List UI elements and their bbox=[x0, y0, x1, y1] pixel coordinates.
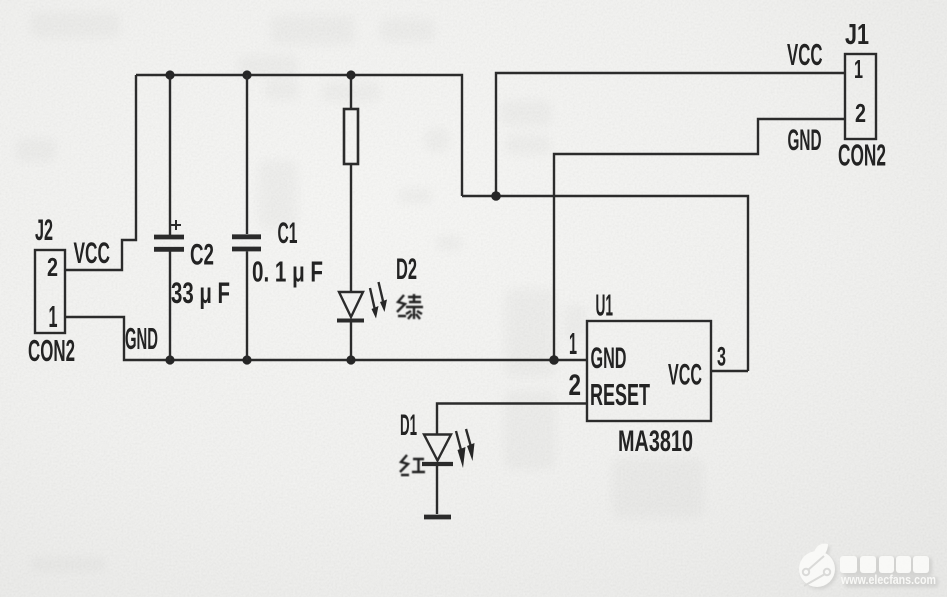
node GND bus at C2 bbox=[165, 355, 174, 364]
svg-text:CON2: CON2 bbox=[838, 138, 886, 173]
IC U1 body bbox=[587, 321, 711, 421]
svg-text:C2: C2 bbox=[190, 239, 214, 272]
wire VCC feed to J1 bbox=[496, 73, 845, 196]
elecfans watermark bbox=[799, 544, 938, 590]
wire U1 pin2 RESET run bbox=[437, 404, 587, 435]
svg-text:D1: D1 bbox=[400, 409, 417, 442]
node GND bus at U1 pin1 bbox=[549, 355, 559, 365]
wire top VCC bus bbox=[136, 75, 462, 196]
svg-text:VCC: VCC bbox=[787, 37, 823, 72]
capacitor C2 bbox=[154, 75, 184, 360]
LED D2 bbox=[337, 282, 387, 360]
node mid rail bbox=[491, 191, 501, 201]
svg-text:GND: GND bbox=[788, 124, 822, 157]
connector J1 body bbox=[845, 54, 876, 139]
svg-text:2: 2 bbox=[569, 369, 582, 402]
node GND bus at D2 bbox=[346, 355, 355, 364]
wire mid rail to U1 pin3 bbox=[462, 196, 748, 371]
node top bus at C1 bbox=[242, 70, 251, 79]
node GND bus at C1 bbox=[242, 355, 251, 364]
svg-text:MA3810: MA3810 bbox=[618, 425, 693, 458]
ground symbol bbox=[424, 515, 451, 520]
svg-text:J2: J2 bbox=[35, 214, 53, 247]
svg-text:3: 3 bbox=[717, 342, 726, 372]
svg-text:RESET: RESET bbox=[590, 377, 650, 412]
svg-text:VCC: VCC bbox=[668, 359, 702, 392]
capacitor C1 bbox=[232, 75, 261, 360]
svg-text:D2: D2 bbox=[396, 253, 417, 286]
svg-text:GND: GND bbox=[125, 321, 158, 356]
svg-text:2: 2 bbox=[47, 252, 58, 282]
svg-text:C1: C1 bbox=[278, 217, 298, 250]
svg-text:0. 1 μ F: 0. 1 μ F bbox=[252, 257, 323, 289]
svg-text:GND: GND bbox=[591, 342, 627, 375]
resistor R (unlabeled) bbox=[344, 75, 358, 291]
wire U1 pin3 stub bbox=[711, 370, 748, 372]
node top bus at C2 bbox=[165, 70, 174, 79]
label D2 colour (green hanzi) bbox=[397, 294, 423, 319]
svg-text:1: 1 bbox=[569, 326, 577, 361]
svg-text:U1: U1 bbox=[596, 288, 614, 323]
svg-text:www.elecfans.com: www.elecfans.com bbox=[840, 573, 936, 587]
LED D1 bbox=[422, 429, 475, 514]
wire J2 pin2 VCC riser bbox=[65, 75, 136, 270]
svg-text:VCC: VCC bbox=[74, 237, 111, 270]
wire J1 pin2 GND run bbox=[554, 119, 845, 360]
wire GND bus bbox=[65, 317, 587, 360]
svg-text:33 μ F: 33 μ F bbox=[171, 277, 230, 310]
svg-text:CON2: CON2 bbox=[28, 333, 75, 368]
node top bus at R bbox=[346, 70, 355, 79]
svg-text:1: 1 bbox=[49, 299, 58, 334]
svg-text:J1: J1 bbox=[845, 19, 869, 51]
connector J2 body bbox=[35, 250, 65, 333]
svg-text:2: 2 bbox=[855, 98, 866, 128]
label D1 colour (red hanzi) bbox=[400, 455, 425, 475]
svg-text:1: 1 bbox=[854, 54, 863, 84]
